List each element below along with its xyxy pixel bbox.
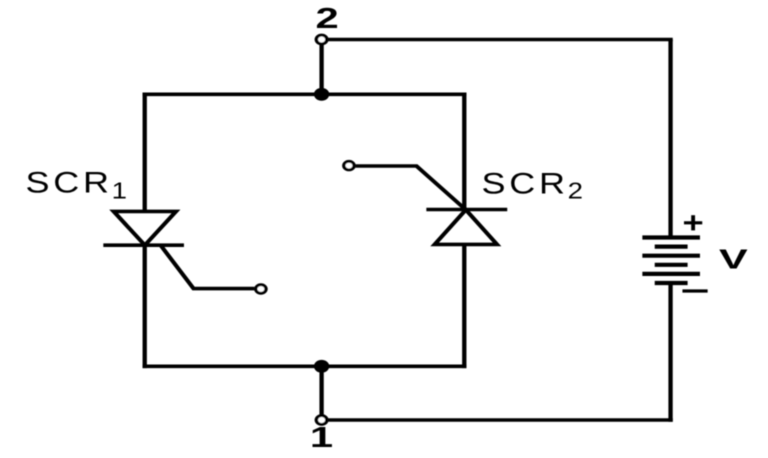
svg-text:2: 2	[316, 1, 339, 34]
svg-text:1: 1	[310, 420, 333, 453]
wire: left loop vertical upper (SCR1 anode)	[143, 93, 147, 212]
node 1 junction dot	[314, 360, 329, 373]
thyristor SCR2 (conducts upward)	[356, 166, 508, 244]
thyristor SCR1 (conducts downward)	[103, 211, 254, 288]
terminal 1 circle	[316, 416, 327, 425]
wire: stub from node 2 junction up to terminal 2	[320, 42, 324, 94]
wire: right loop vertical upper (SCR2 cathode)	[462, 93, 466, 210]
label: SCR1	[26, 166, 127, 204]
label: SCR2	[482, 167, 583, 204]
svg-text:1: 1	[112, 178, 127, 203]
gate terminal circle of SCR2	[344, 161, 354, 170]
battery minus sign	[682, 289, 707, 292]
svg-text:SCR: SCR	[482, 167, 569, 200]
label: terminal 2	[316, 1, 339, 34]
svg-text:V: V	[719, 243, 748, 275]
gate terminal circle of SCR1	[256, 285, 266, 294]
svg-text:SCR: SCR	[26, 166, 113, 199]
wire: battery negative lead (right vertical lower)	[669, 283, 673, 422]
node 2 junction dot	[314, 88, 329, 101]
label: terminal 1	[310, 420, 333, 453]
wire: top loop horizontal (node 2 bus)	[143, 93, 467, 97]
wire: terminal 2 to battery positive (top right horizontal)	[325, 38, 673, 42]
battery plus sign	[684, 215, 702, 230]
wire: bottom loop horizontal (node 1 bus)	[143, 364, 467, 368]
wire: right loop vertical lower (SCR2 anode)	[462, 244, 466, 368]
battery V plates	[642, 238, 700, 284]
wire: terminal 1 to battery negative (bottom right horizontal)	[325, 418, 673, 422]
wire: left loop vertical lower (SCR1 cathode)	[143, 245, 147, 368]
wire: battery positive lead (right vertical upper)	[669, 40, 673, 238]
wire: stub from node 1 junction down to terminal 1	[320, 366, 324, 417]
terminal 2 circle	[316, 35, 327, 44]
label: battery voltage V	[719, 243, 748, 275]
svg-text:2: 2	[568, 178, 583, 203]
